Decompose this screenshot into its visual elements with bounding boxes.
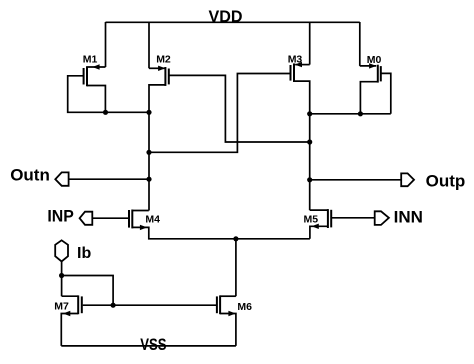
svg-text:INN: INN (394, 207, 423, 226)
svg-text:M7: M7 (54, 301, 69, 313)
svg-text:M6: M6 (237, 301, 252, 313)
svg-text:M0: M0 (367, 54, 382, 66)
svg-text:M3: M3 (288, 54, 303, 66)
svg-text:Outp: Outp (426, 171, 466, 190)
svg-text:M4: M4 (145, 213, 160, 225)
svg-text:M5: M5 (304, 214, 319, 226)
svg-text:VDD: VDD (209, 7, 243, 26)
svg-text:INP: INP (47, 206, 74, 225)
svg-text:Ib: Ib (77, 245, 91, 262)
svg-text:M1: M1 (83, 54, 98, 66)
svg-text:Outn: Outn (10, 166, 50, 185)
svg-text:VSS: VSS (140, 335, 166, 354)
svg-text:M2: M2 (156, 54, 171, 66)
